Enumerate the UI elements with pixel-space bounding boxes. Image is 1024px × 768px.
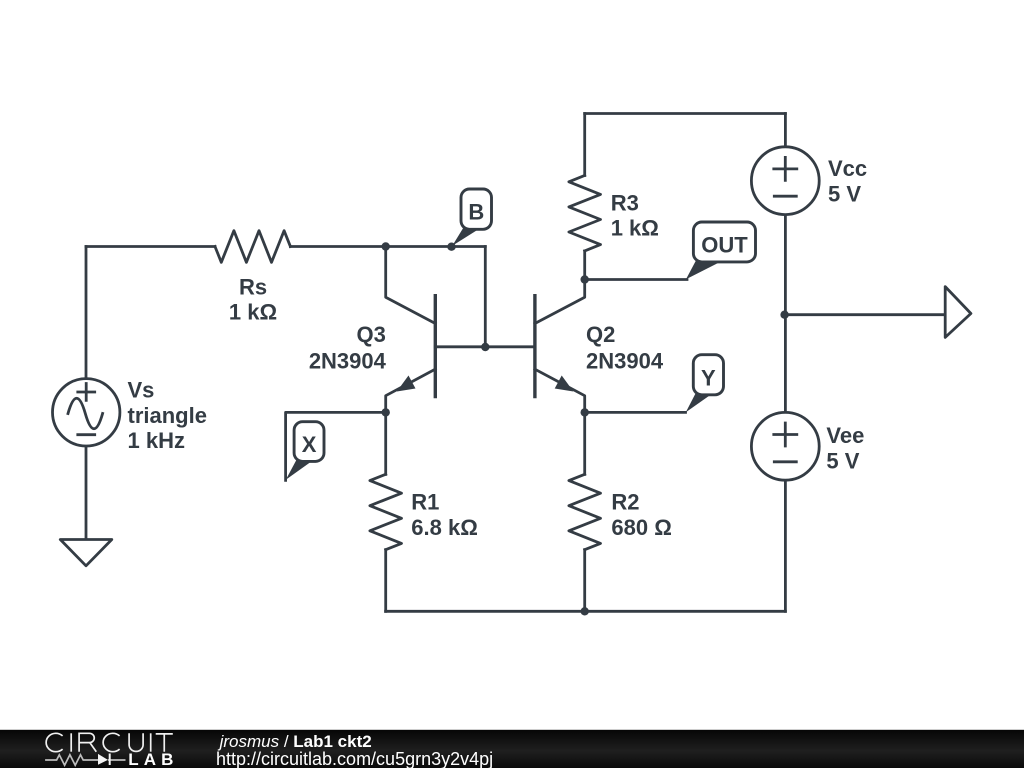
output port arrow — [945, 287, 971, 338]
wire — [585, 278, 687, 281]
net flag X — [286, 422, 324, 480]
svg-text:Vs: Vs — [128, 377, 155, 402]
wire — [585, 411, 686, 414]
voltage source Vcc 5 V — [751, 147, 819, 215]
wire — [784, 215, 787, 413]
resistor R1 6.8 kOhm — [370, 412, 402, 611]
wire — [784, 480, 787, 612]
wire — [585, 112, 786, 115]
svg-text:triangle: triangle — [128, 403, 207, 428]
wire — [785, 313, 946, 316]
svg-text:http://circuitlab.com/cu5grn3y: http://circuitlab.com/cu5grn3y2v4pj — [216, 749, 493, 768]
resistor R2 680 Ohm — [569, 412, 601, 611]
svg-text:R3: R3 — [611, 190, 639, 215]
wire — [290, 245, 485, 248]
resistor Rs 1 kOhm — [215, 231, 290, 263]
wire — [286, 412, 386, 480]
node OUT — [581, 275, 589, 283]
net flag Y — [686, 355, 724, 413]
wire — [85, 446, 88, 540]
voltage source Vee 5 V — [751, 412, 819, 480]
node bottom — [581, 607, 589, 615]
svg-text:1 kΩ: 1 kΩ — [611, 216, 659, 241]
net flag B — [452, 189, 491, 246]
svg-text:Q3: Q3 — [357, 322, 386, 347]
resistor R3 1 kOhm — [569, 114, 601, 280]
svg-text:2N3904: 2N3904 — [586, 349, 664, 374]
svg-text:R1: R1 — [411, 490, 439, 515]
node Y — [581, 408, 589, 416]
svg-text:5 V: 5 V — [826, 448, 859, 473]
node base junction — [481, 343, 489, 351]
wire — [484, 247, 487, 348]
svg-text:OUT: OUT — [701, 233, 748, 258]
transistor Q2 2N3904 — [535, 280, 585, 413]
svg-text:R2: R2 — [611, 490, 639, 515]
svg-text:LAB: LAB — [128, 750, 178, 768]
wire — [784, 114, 787, 147]
svg-text:Rs: Rs — [239, 274, 267, 299]
svg-text:Vee: Vee — [826, 423, 864, 448]
svg-text:6.8 kΩ: 6.8 kΩ — [411, 515, 478, 540]
svg-text:680 Ω: 680 Ω — [611, 515, 671, 540]
svg-text:X: X — [302, 432, 317, 457]
wire — [85, 247, 88, 380]
voltage source Vs triangle 1 kHz — [52, 379, 119, 446]
svg-text:2N3904: 2N3904 — [309, 349, 387, 374]
node B — [447, 243, 455, 251]
svg-text:Y: Y — [701, 365, 716, 390]
wire — [86, 245, 215, 248]
net flag OUT — [686, 222, 756, 279]
svg-text:1 kΩ: 1 kΩ — [229, 300, 277, 325]
transistor Q3 2N3904 — [386, 247, 436, 413]
CircuitLab logo — [46, 733, 173, 751]
svg-text:5 V: 5 V — [828, 181, 861, 206]
wire — [435, 345, 535, 348]
svg-text:Vcc: Vcc — [828, 156, 867, 181]
svg-text:1 kHz: 1 kHz — [128, 428, 185, 453]
ground — [60, 540, 112, 566]
svg-text:B: B — [468, 200, 484, 225]
node output — [780, 311, 788, 319]
svg-text:Q2: Q2 — [586, 322, 615, 347]
wire — [386, 610, 786, 613]
node X — [382, 408, 390, 416]
node B-col junction — [382, 242, 390, 250]
